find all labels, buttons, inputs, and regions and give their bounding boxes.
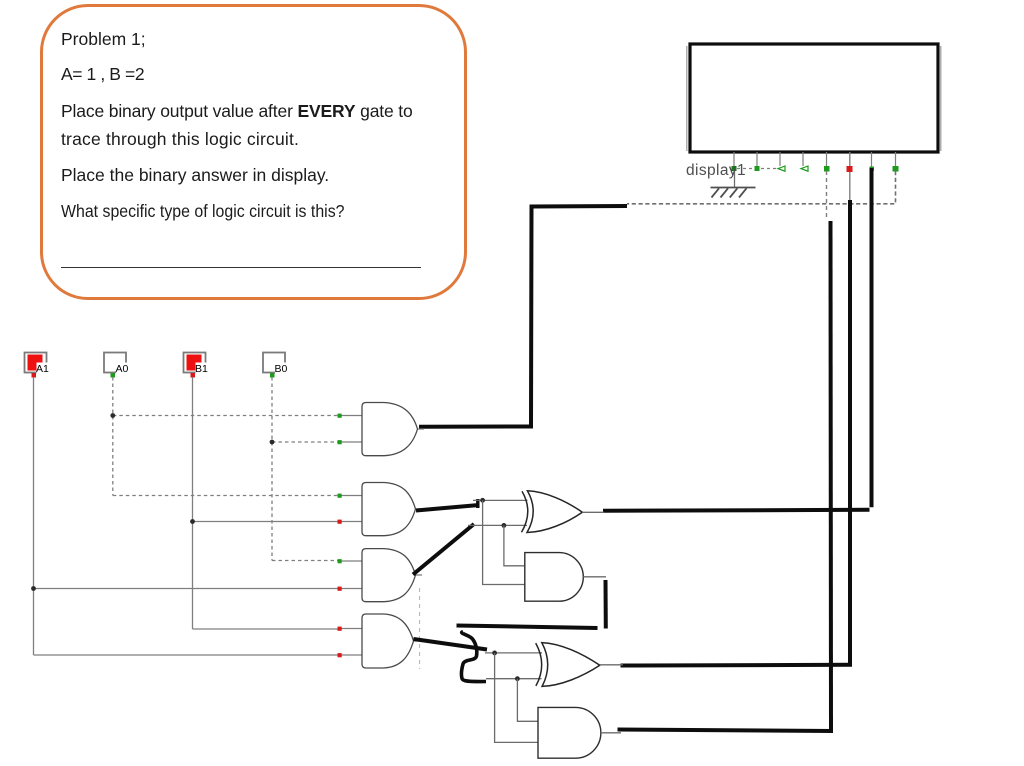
switch B1 (184, 353, 207, 378)
net B0 dashed vertical (271, 377, 273, 561)
net to AND1 in2 (483, 500, 525, 584)
terminal pin8 (893, 166, 899, 172)
terminal pin7 (870, 167, 875, 172)
svg-text:B1: B1 (195, 363, 208, 375)
gate3 output stub (415, 574, 422, 576)
XOR U7 (536, 643, 600, 687)
wire: vertical under pin5 (AND2 out) (829, 221, 834, 731)
XOR2 output stub (600, 664, 623, 666)
net A0 dashed vertical (112, 377, 114, 496)
XOR1 output stub (582, 511, 604, 513)
pin 3 (779, 152, 781, 166)
net to XOR2 in2 (486, 678, 542, 680)
net A1 vertical (33, 377, 35, 655)
wire: AND2 output horizontal (618, 730, 834, 732)
AND U6 (525, 553, 584, 602)
dashed net pin1-pin3 (737, 168, 778, 170)
wire: gate1 output to display (hand drawn) (419, 206, 627, 427)
terminal pin6 red (847, 166, 853, 172)
wire: vertical to pin7 (XOR1 out) (870, 168, 874, 507)
junction B1 (190, 519, 195, 524)
junction A0 (110, 413, 115, 418)
gate2 AND input stubs (341, 495, 362, 497)
switch A0 (104, 353, 127, 378)
pin 7 (871, 152, 873, 168)
gate3 AND input stubs (341, 560, 362, 562)
switch A1 (25, 353, 48, 378)
net to AND2 in2 (495, 653, 538, 743)
pin 1 (733, 152, 735, 166)
wire: XOR2 output horizontal (621, 663, 853, 668)
answer blank line (61, 267, 421, 268)
net B0 to gate1 input2 dashed (272, 441, 339, 443)
net A1 to gate4 input2 (34, 654, 340, 656)
pin 6 (849, 152, 851, 200)
net: pin5 dashed stub (826, 171, 828, 220)
AND1 output stub (583, 576, 606, 578)
wire: gate3 output diagonal hand drawn (413, 524, 474, 575)
gate1 input terminals (338, 414, 342, 418)
gate2 output stub (415, 508, 422, 510)
wire: AND1 out down (hand drawn) (604, 580, 608, 629)
net A0 to gate1 input1 dashed (113, 415, 339, 417)
terminal pin5 (824, 166, 830, 172)
junction A1 (31, 586, 36, 591)
junction (515, 676, 520, 681)
net gate4out to XOR2 in1 (485, 652, 542, 654)
ground lead (734, 171, 736, 188)
net A1 to gate3 input2 (34, 588, 340, 590)
XOR U5 (522, 491, 583, 533)
junction (502, 523, 507, 528)
gate2 input terminals (338, 494, 342, 498)
junction B0 (270, 440, 275, 445)
wire: vertical to pin6 (XOR2 out) (848, 200, 852, 666)
svg-text:A0: A0 (116, 363, 129, 375)
gate1 AND input stubs (341, 415, 362, 417)
terminal pin2 (755, 166, 760, 171)
net B1 vertical (192, 377, 194, 629)
net gate3out to XOR1 in2 (468, 524, 527, 526)
pin 5 (826, 152, 828, 166)
AND2 output stub (601, 732, 621, 734)
display U1 body (686, 46, 688, 151)
switch B0 (263, 353, 286, 378)
terminal pin1 (732, 166, 737, 171)
labels (36, 162, 746, 375)
squiggle annotation (461, 632, 486, 682)
gate4 input terminals (338, 627, 342, 631)
svg-text:B0: B0 (275, 363, 288, 375)
net: pin8 dashed to gate1 wire (627, 171, 896, 204)
wire: gate4 output hand drawn (414, 639, 488, 650)
terminal pin3 arrow (778, 166, 785, 171)
pin 8 (895, 152, 897, 166)
gate U4 AND (362, 614, 414, 668)
junction (492, 651, 497, 656)
net B1 to gate2 input2 (193, 521, 340, 523)
dashed stub right of gate4 (419, 588, 421, 669)
net gate2out to XOR1 in1 (473, 499, 528, 501)
gate4 AND input stubs (341, 628, 362, 630)
gate U1 AND (362, 403, 418, 456)
gate1 output stub (417, 428, 424, 430)
problem statement box (40, 4, 467, 300)
wire: gate2 output hand drawn (416, 505, 479, 511)
tick at end of gate2 wire (476, 499, 479, 508)
net to AND2 in1 (517, 679, 538, 722)
pin 2 (756, 152, 758, 166)
wire: XOR1 output horizontal (603, 510, 870, 511)
gate4 output stub (413, 640, 420, 642)
svg-text:A1: A1 (36, 363, 49, 375)
AND U8 (538, 707, 601, 758)
pin 4 (802, 152, 804, 166)
wire: horizontal above gate4 out (hand drawn) (457, 626, 598, 629)
gate U2 AND (362, 483, 416, 536)
svg-text:display1: display1 (686, 162, 746, 179)
gate3 input terminals (338, 559, 342, 563)
ground symbol (711, 188, 756, 198)
gate U3 AND (362, 549, 416, 602)
terminal pin4 arrow (801, 166, 808, 171)
net B0 to gate3 input1 dashed (272, 560, 339, 562)
net to AND1 in1 (504, 525, 525, 565)
net A0 to gate2 input1 dashed (113, 495, 339, 497)
junction (480, 498, 485, 503)
net B1 to gate4 input1 (193, 628, 340, 630)
